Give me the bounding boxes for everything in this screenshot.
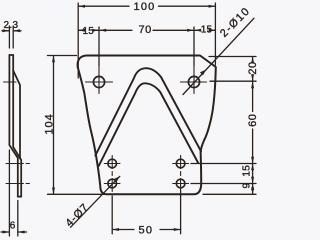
arrow 100 right — [209, 5, 216, 8]
arrow 2.3 left outside — [3, 29, 10, 32]
svg-text:70: 70 — [139, 24, 152, 36]
hole top-left circle — [93, 76, 104, 87]
arrow 100 left — [78, 5, 85, 8]
arrow 6 left outside — [3, 231, 10, 234]
dim chain right — [252, 57, 254, 195]
arrow 50 right — [174, 228, 181, 231]
side view rib flange — [13, 71, 20, 159]
svg-text:6: 6 — [10, 220, 16, 231]
ext 104 bottom — [48, 193, 105, 195]
hole bottom-left-lower circle — [108, 179, 117, 188]
ext line at hole left x99 — [98, 27, 100, 66]
dim line 2.3 outside — [2, 30, 21, 32]
svg-text:60: 60 — [247, 114, 259, 127]
svg-text:100: 100 — [134, 1, 156, 13]
hole top-right circle — [188, 76, 199, 87]
dim line 100 — [78, 5, 215, 7]
ext 6 right — [17, 201, 19, 237]
crosshair top-left hole — [86, 67, 113, 94]
hole bottom-right-upper circle — [176, 159, 185, 168]
ext right chain y183.5 — [191, 183, 256, 185]
ext 2.3 left — [8, 26, 10, 48]
ext 6 left — [8, 150, 10, 236]
leader 2-phi10 — [183, 18, 254, 94]
svg-text:15: 15 — [242, 165, 253, 177]
svg-text:104: 104 — [44, 113, 56, 134]
ext right chain top edge — [209, 56, 256, 58]
side view top end — [9, 54, 13, 56]
ext right chain hole y82 — [210, 80, 256, 82]
arrow leader 4-phi7 — [113, 176, 119, 182]
rib inner line (lambda) — [99, 83, 199, 166]
svg-text:15: 15 — [83, 26, 95, 37]
dim line 50 — [112, 229, 180, 231]
rib outer line (lambda) — [95, 68, 201, 155]
svg-text:9: 9 — [242, 182, 253, 188]
leader 4-phi7 — [71, 176, 120, 227]
ext 50 left — [111, 196, 113, 234]
arrow 104 bottom — [52, 188, 55, 195]
side view bottom end — [18, 196, 21, 198]
ext right chain bottom y194.3 — [203, 193, 256, 195]
centerline bottom-left column — [104, 156, 120, 192]
dimension lines — [1, 3, 256, 236]
ext right chain y163.5 — [191, 163, 256, 165]
arrows at 99 double — [92, 29, 106, 32]
side view hole tick lower1 — [6, 163, 30, 165]
arrow 50 left — [112, 228, 119, 231]
centerline bottom-right column — [173, 156, 189, 192]
dim line 15-70-15 — [78, 29, 215, 31]
dim line 6 outside — [1, 231, 27, 233]
svg-text:2.3: 2.3 — [4, 20, 19, 31]
arrows at 194 double — [187, 29, 201, 32]
dim line 104 — [53, 56, 55, 195]
svg-text:15: 15 — [201, 25, 213, 36]
ext 2.3 right — [12, 26, 14, 48]
arrows — [3, 5, 255, 234]
hole bottom-right-lower circle — [176, 179, 185, 188]
right chain arrow bottom — [251, 188, 254, 195]
arrow 6 right outside — [18, 231, 25, 234]
ext line 100 right — [214, 3, 216, 65]
right chain arrows y163.5 — [251, 157, 254, 171]
side view right surface — [13, 55, 21, 197]
crosshair top-right hole — [181, 67, 207, 94]
ext 104 top — [48, 55, 77, 57]
ext line 100 left — [77, 3, 79, 78]
side view outline — [9, 55, 21, 197]
arrow 104 top — [52, 56, 55, 63]
arrow 2.3 right outside — [13, 29, 20, 32]
side view hole tick top — [4, 81, 17, 83]
hole bottom-left-upper circle — [108, 159, 117, 168]
arrow 15 left at 78.2 — [78, 29, 85, 32]
arrow leader 2-phi10 — [200, 70, 206, 76]
ext 50 right — [180, 192, 182, 234]
side view hole tick lower2 — [6, 183, 30, 185]
ext line at hole right x194 — [193, 27, 195, 66]
plate outline (front view) — [78, 56, 216, 195]
right chain arrows y183.5 — [251, 177, 254, 191]
arrow 15 right at 215.4 — [209, 29, 216, 32]
svg-text:50: 50 — [139, 224, 154, 236]
side view left surface — [9, 55, 17, 197]
right chain arrows y82 — [251, 74, 254, 88]
svg-text:20: 20 — [247, 61, 259, 74]
right chain arrow top — [251, 57, 254, 64]
